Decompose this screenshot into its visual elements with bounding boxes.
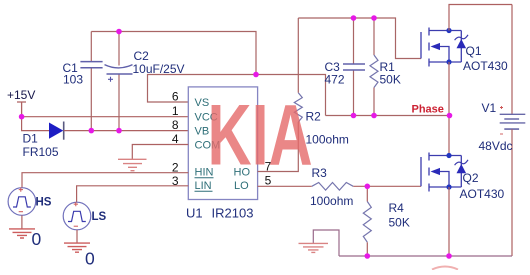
resistor R1 xyxy=(370,18,378,116)
wire VS net: pin6 up and across xyxy=(148,75,326,116)
+15V supply terminal xyxy=(17,102,26,117)
watermark KIA xyxy=(208,86,313,183)
node junction C3 top xyxy=(351,15,357,21)
wire VCC rail to pin 1 xyxy=(22,116,189,118)
node Q2 drain xyxy=(446,153,451,158)
svg-text:V1: V1 xyxy=(482,101,497,115)
wire VS to Phase node xyxy=(326,115,450,117)
svg-text:AOT430: AOT430 xyxy=(460,187,505,201)
node junction C1 bottom xyxy=(89,128,95,134)
node Q1 drain xyxy=(446,28,451,33)
svg-text:48Vdc: 48Vdc xyxy=(479,139,513,153)
node junction R1 bottom xyxy=(371,113,377,119)
svg-text:+15V: +15V xyxy=(7,88,35,102)
resistor R4 xyxy=(363,186,371,256)
node junction +15V xyxy=(19,114,25,120)
node Phase junction xyxy=(447,113,453,119)
svg-text:10uF/25V: 10uF/25V xyxy=(133,62,185,76)
svg-text:D1: D1 xyxy=(23,132,39,146)
svg-text:Phase: Phase xyxy=(412,104,444,116)
wire COM pin4 xyxy=(132,145,188,160)
wire LIN pin3 xyxy=(77,186,189,202)
svg-text:472: 472 xyxy=(325,72,345,86)
wire Q2 source to bottom rail xyxy=(448,187,450,256)
capacitor C1 xyxy=(80,32,102,131)
svg-text:1: 1 xyxy=(172,104,179,118)
svg-text:100ohm: 100ohm xyxy=(310,194,353,208)
svg-text:LS: LS xyxy=(92,211,107,223)
wire R2 top to gate wire xyxy=(297,18,299,93)
svg-text:IR2103: IR2103 xyxy=(212,206,254,221)
svg-text:FR105: FR105 xyxy=(23,145,59,159)
wire top-left (VB top link C1,C2 to VS) xyxy=(91,32,256,75)
wire LS to ground xyxy=(76,230,78,243)
wire power ground branch xyxy=(313,230,339,256)
wire R3 to Q2 gate xyxy=(353,185,421,187)
wire bottom rail xyxy=(339,255,512,257)
node junction R4 bottom xyxy=(365,253,371,259)
node junction VS xyxy=(253,72,259,78)
svg-text:50K: 50K xyxy=(389,216,410,230)
wire HO pin7 to R2 xyxy=(258,122,299,172)
ground LS xyxy=(64,243,90,252)
wire +15V down to D1 anode xyxy=(22,117,49,131)
node Q1 source xyxy=(446,59,451,64)
op-amp / driver IC U1 IR2103 box xyxy=(188,87,257,200)
node junction C2 bottom xyxy=(116,128,122,134)
svg-text:HS: HS xyxy=(36,196,52,208)
battery V1 xyxy=(500,5,526,257)
svg-text:R3: R3 xyxy=(312,166,328,180)
capacitor C2 (electrolytic) xyxy=(105,32,133,131)
svg-text:0: 0 xyxy=(32,229,42,249)
pulse source HS xyxy=(8,188,36,216)
svg-text:0: 0 xyxy=(85,249,95,269)
svg-text:8: 8 xyxy=(172,118,179,132)
transistor Q1 AOT430 xyxy=(421,28,461,67)
svg-text:Q2: Q2 xyxy=(463,171,479,185)
wire LO pin5 to R3 xyxy=(258,185,312,187)
wire Q1 drain to top rail xyxy=(449,5,512,31)
ground HS xyxy=(9,229,35,238)
transistor Q2 AOT430 xyxy=(421,153,461,192)
resistor R2 xyxy=(294,93,302,122)
node junction C2 top xyxy=(116,29,122,35)
svg-text:AOT430: AOT430 xyxy=(463,59,508,73)
svg-text:U1: U1 xyxy=(186,206,203,221)
wire HIN pin2 xyxy=(22,173,188,188)
node junction C3 bottom xyxy=(351,113,357,119)
wire phase: Q1 source to Q2 drain xyxy=(448,62,450,156)
diode D1 xyxy=(49,122,64,140)
svg-text:Q1: Q1 xyxy=(466,44,482,58)
pulse source LS xyxy=(63,202,91,230)
capacitor C3 xyxy=(343,18,365,116)
ground power xyxy=(299,243,329,252)
node junction Q2 source rail xyxy=(446,253,452,259)
node junction R3/R4/gate xyxy=(365,184,371,190)
resistor R3 xyxy=(312,183,353,191)
svg-text:R4: R4 xyxy=(389,201,405,215)
watermark fragment bottom xyxy=(432,267,458,270)
svg-text:6: 6 xyxy=(172,90,179,104)
svg-text:103: 103 xyxy=(63,73,83,87)
node Q2 source xyxy=(446,184,451,189)
node junction R1 top xyxy=(371,15,377,21)
svg-text:50K: 50K xyxy=(380,72,401,86)
svg-text:KIA: KIA xyxy=(208,86,313,183)
wire top gate rail to Q1 xyxy=(298,18,421,59)
wire VB rail from D1 cathode to pin 8 xyxy=(64,130,189,132)
wire HS to ground xyxy=(21,215,23,228)
ground COM xyxy=(118,159,147,170)
